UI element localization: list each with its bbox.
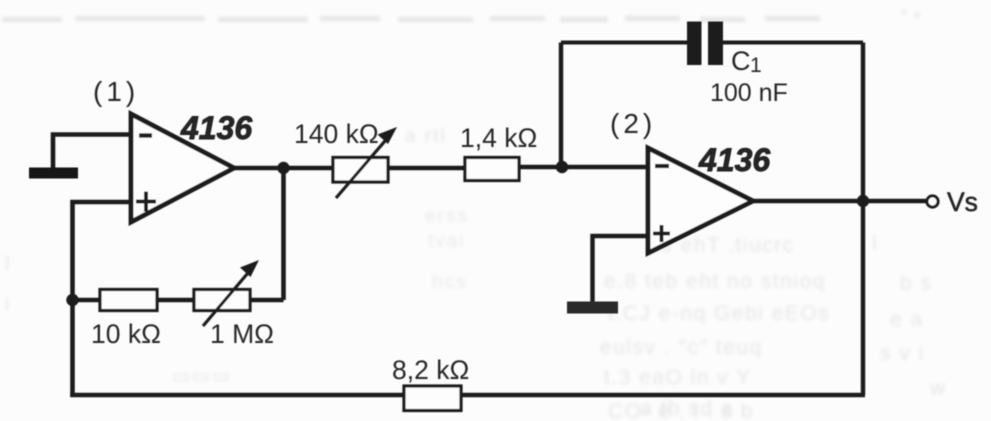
wire: bottom rail left of 8,2k (70, 393, 404, 398)
U2 plus pin label (653, 225, 670, 242)
svg-text:1 MΩ: 1 MΩ (210, 319, 274, 349)
svg-text:(2): (2) (610, 108, 656, 139)
svg-text:t.3 eaO ln v Y: t.3 eaO ln v Y (604, 366, 752, 389)
wire: node A down to feedback chain (281, 168, 286, 300)
svg-text:e a: e a (890, 308, 924, 331)
svg-text:i: i (5, 294, 11, 315)
svg-text:a tb sd a: a tb sd a (640, 397, 734, 420)
svg-text:tvai: tvai (428, 231, 466, 252)
svg-text:(1): (1) (93, 76, 139, 107)
wire: U2 output to Vs terminal (753, 199, 927, 204)
U1 minus pin label (139, 133, 152, 137)
svg-text:1: 1 (750, 54, 762, 77)
scan artifact: bleed-through text right side (decorative) (600, 232, 947, 421)
svg-text:w: w (929, 377, 947, 400)
node A (U1 output junction) (277, 162, 289, 174)
svg-text:erss: erss (425, 206, 469, 227)
svg-text:4136: 4136 (698, 142, 770, 178)
wire: U1 output to potentiometer 140k (234, 166, 333, 171)
ground (at U2 non-inverting input) (567, 302, 618, 314)
resistor 1,4 kOhm (465, 158, 519, 181)
potentiometer 140 kOhm (333, 158, 388, 183)
resistor 10 kOhm (100, 290, 157, 311)
op-amp U2 (4136) (648, 148, 753, 253)
svg-text:e.8 teb eht no stnioq: e.8 teb eht no stnioq (604, 270, 826, 293)
svg-text:4136: 4136 (180, 110, 252, 146)
svg-text:1,4 kΩ: 1,4 kΩ (460, 123, 537, 153)
capacitor C1 (687, 22, 702, 66)
wire: 1,4k to node B and on to U2 inverting input (519, 165, 648, 170)
svg-text:10 kΩ: 10 kΩ (91, 319, 161, 349)
svg-text:l: l (872, 232, 878, 255)
svg-text:eulsv . "c" teuq: eulsv . "c" teuq (600, 336, 763, 359)
node C (output junction) (857, 195, 869, 207)
scan artifact: faint mid blobs (decorative) (5, 126, 469, 387)
wire: U2 non-inverting input to ground (593, 236, 649, 303)
wire: bottom rail right of 8,2k (461, 393, 865, 398)
wire: top feedback loop right segment (721, 41, 863, 45)
svg-text:* •: * • (900, 5, 920, 27)
resistor 8,2 kOhm (404, 386, 461, 411)
svg-text:b s: b s (900, 272, 933, 295)
wire: top feedback loop left segment (561, 41, 689, 45)
node B (summing junction) (556, 161, 568, 173)
svg-text:t.CJ e-nq Gebi eEOs: t.CJ e-nq Gebi eEOs (608, 302, 830, 325)
wire: op-amp U1 inverting input to ground (53, 135, 131, 171)
wire: 1M to node A vertical (250, 298, 284, 303)
op-amp U1 (4136) (131, 114, 234, 222)
svg-text:hcs: hcs (432, 272, 468, 293)
wire: 10k to potentiometer 1M (157, 298, 194, 303)
output terminal circle (927, 196, 938, 207)
svg-text:Vs: Vs (947, 187, 978, 217)
potentiometer 1 MOhm (194, 290, 250, 311)
svg-text:140 kΩ: 140 kΩ (294, 119, 379, 149)
svg-text:100 nF: 100 nF (710, 79, 788, 107)
U1 plus pin label (136, 192, 156, 212)
svg-text:s v i: s v i (880, 342, 925, 365)
ground (left, at U1 inverting input) (29, 168, 78, 179)
svg-text:C: C (731, 46, 751, 76)
U2 minus pin label (655, 164, 669, 168)
svg-text:8,2 kΩ: 8,2 kΩ (392, 355, 469, 385)
wire: right vertical (cap loop top to bottom rail) (861, 43, 865, 396)
wire: 140k to resistor 1,4k (388, 166, 465, 171)
scan artifact: faint dashed line top (decorative) (2, 5, 920, 27)
svg-text:l: l (5, 254, 11, 275)
wire: node B up to capacitor loop (559, 43, 563, 168)
wire: node D to resistor 10k (73, 298, 101, 303)
wire: op-amp U1 non-inverting input run to left rail (73, 202, 132, 397)
svg-text:a rtl: a rtl (405, 126, 447, 147)
svg-text:▭▭▭: ▭▭▭ (172, 366, 232, 387)
node D (left feedback junction) (66, 294, 78, 306)
